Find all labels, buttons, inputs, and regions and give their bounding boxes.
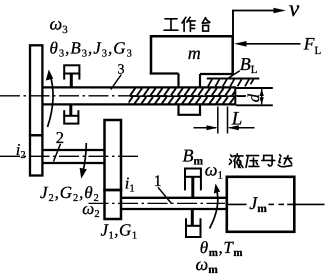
char 台 [202,18,210,32]
omega1 rotation arrow [210,188,218,229]
nut foot of worktable [177,74,201,115]
worktable bottom edge right [200,73,234,75]
motor output line right [287,203,324,205]
label 液压马达 (hand-drawn strokes) [229,154,291,168]
gear G2 on shaft 2 (right column upper) [105,120,122,190]
lead screw hatched thread [128,88,238,104]
leader for label 3 [111,75,122,90]
center line stub right of screw [237,95,246,97]
wire shaft 2 [42,150,104,163]
damper BL pad hatching [208,79,253,86]
velocity arrow v [233,10,276,12]
motor internal center line to Jm [228,203,247,205]
svg-text:m: m [188,43,201,63]
bearing on shaft 3, upper [64,65,79,86]
svg-text:d: d [244,93,263,102]
wire shaft 3 (lead screw shaft) [43,87,236,104]
dimension d arrow [261,89,263,104]
char 液 [229,154,243,168]
dimension L extension lines [217,107,219,134]
motor internal dashes [269,203,275,205]
char 作 [182,17,195,31]
node axis2 center line [0,155,138,157]
gear G3 on shaft 3 [30,45,42,135]
svg-text:1: 1 [154,173,162,190]
lead screw end cap [234,87,236,106]
svg-text:L: L [231,108,243,129]
damper BL friction pad [207,78,259,80]
bearing Bm upper [185,169,201,198]
worktable box [151,36,233,74]
node axis3 center line [0,95,246,97]
char 压 [246,156,259,168]
load force arrow FL [245,43,301,45]
char 达 [278,155,292,167]
leader for label 2 [54,144,61,162]
label 工作台 (hand-drawn strokes) [164,17,210,31]
riser line to worktable [232,10,234,36]
hydraulic motor box [227,177,294,232]
char 工 [164,19,178,30]
bearing on shaft 3, lower [64,105,78,123]
omega3 rotation arrow [48,73,54,127]
leader for label 1 [158,187,172,203]
node axis1 center line [89,202,226,204]
worktable bottom edge left [150,72,179,74]
svg-text:v: v [289,0,300,21]
bearing Bm lower [186,210,201,237]
char 马 [262,155,275,166]
gear pinion i2 on shaft 2 (below gear 3) [30,135,42,175]
omega2 rotation arrow [83,143,87,172]
dimension d extension lines [236,87,273,89]
wire shaft 1 [121,198,226,209]
gear G1 on shaft 1 (right column lower) [105,190,122,219]
dimension L arrows [194,127,217,129]
leader for BL [229,71,240,78]
